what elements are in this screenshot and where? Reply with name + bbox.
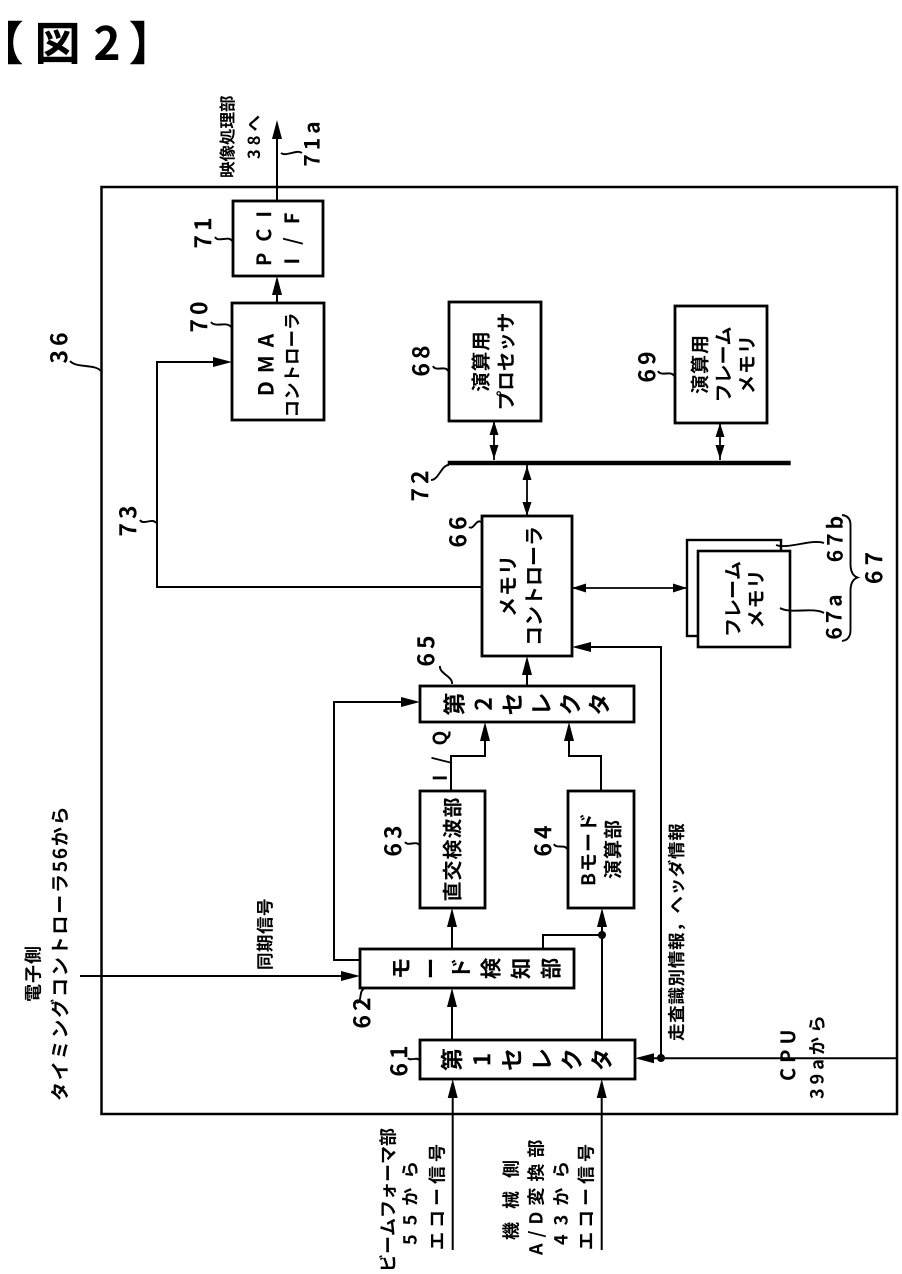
frame memory 67b back box <box>687 540 781 636</box>
box 69 arithmetic frame memory <box>675 306 767 423</box>
wire from CPU 39a to first selector 61 <box>635 1053 897 1063</box>
label 62 <box>353 989 371 1028</box>
label scan id info / header info <box>668 824 686 1041</box>
label 67b <box>776 517 843 561</box>
box 64 B-mode arithmetic unit <box>568 791 634 908</box>
box 62 mode detector <box>360 949 574 988</box>
label 72 <box>411 465 449 500</box>
wire memory controller 66 to bus 72 (bidirectional) <box>523 465 532 516</box>
label 67 with brace <box>842 515 883 641</box>
box 66 memory controller <box>482 516 572 656</box>
label 64 <box>534 826 567 855</box>
wire sync signal from electronic timing controller 56 <box>80 971 360 981</box>
label machine-side A/D converter 43 echo signal input <box>502 1140 594 1255</box>
label 67a <box>780 596 842 639</box>
wire B-mode unit 64 to selector 65 <box>564 722 601 791</box>
wire selector 61 to mode detector 62 <box>447 988 457 1040</box>
box 63 quadrature detector <box>420 791 485 908</box>
figure title 【図2】 <box>8 21 144 64</box>
label 71a <box>281 123 320 166</box>
label 71 <box>194 219 232 248</box>
wire echo signal from A/D converter 43 to selector 61 <box>597 1079 607 1250</box>
frame memory 67a front box <box>698 551 790 647</box>
wire echo signal from beam former 55 to selector 61 <box>448 1079 458 1250</box>
label sync signal <box>257 899 273 968</box>
box 65 second selector <box>420 686 634 722</box>
label electronic-side timing controller 56 <box>24 809 68 1100</box>
wire scan id / header info to memory controller 66 <box>572 642 661 1058</box>
box 71 PCI I/F <box>233 201 323 276</box>
wire mode detector 62 to B-mode unit 64 with branch from selector 61 <box>543 908 607 1040</box>
label beam former 55 echo signal input <box>379 1129 445 1270</box>
wire selector 65 to memory controller 66 <box>522 656 532 686</box>
label 63 <box>384 827 419 856</box>
bus 72 <box>448 461 791 466</box>
wire mode detector 62 to quadrature detector 63 <box>447 908 457 949</box>
label 61 <box>390 1047 419 1076</box>
label video processor 38 (output) <box>219 96 260 177</box>
label 68 <box>412 347 448 376</box>
label CPU 39a <box>780 1017 824 1098</box>
label 66 <box>449 517 481 546</box>
wire memory controller 66 to frame memory 67 (bidirectional) <box>572 584 687 593</box>
label I/Q <box>432 731 451 779</box>
junction dot on 62/64 branch <box>598 931 606 939</box>
wire 73 memory controller to DMA <box>157 357 482 587</box>
label 69 <box>638 353 674 382</box>
label 36 <box>50 333 101 371</box>
box 70 DMA controller <box>232 303 324 420</box>
wire mode detector 62 to second selector 65 <box>334 697 420 960</box>
block 36 outer boundary <box>102 187 898 1114</box>
wire bus 72 to frame memory 69 (bidirectional) <box>716 423 725 460</box>
wire quadrature detector 63 to selector 65 (I/Q) <box>451 722 490 791</box>
label 70 <box>190 303 231 332</box>
wire bus 72 to processor 68 (bidirectional) <box>490 421 499 460</box>
wire DMA 70 to PCI 71 <box>272 276 282 303</box>
wire PCI I/F output to video processor 38 <box>272 120 282 201</box>
box 68 arithmetic processor <box>449 302 541 421</box>
junction dot on CPU line <box>657 1054 665 1062</box>
label 73 <box>119 507 156 536</box>
label 65 <box>417 637 452 684</box>
box 61 first selector <box>420 1040 635 1079</box>
